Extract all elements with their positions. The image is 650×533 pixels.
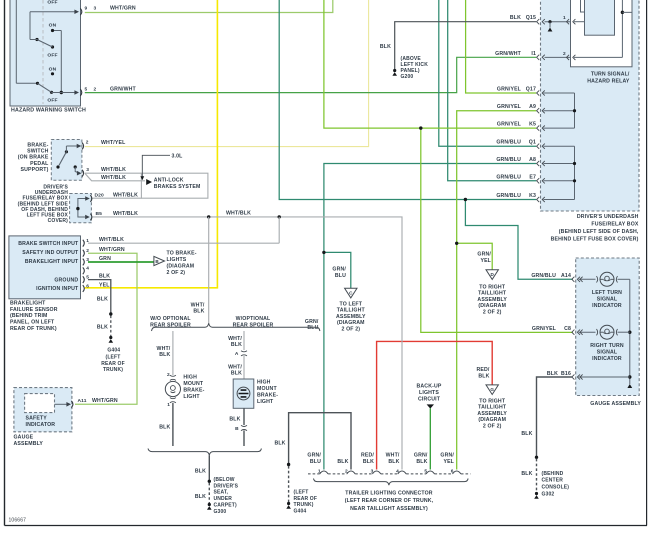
svg-text:GRN/: GRN/	[305, 319, 319, 325]
svg-text:(LEFT REAR CORNER OF TRUNK,: (LEFT REAR CORNER OF TRUNK,	[345, 498, 434, 504]
svg-text:COVER): COVER)	[48, 218, 69, 224]
svg-text:GRN/BLU: GRN/BLU	[496, 140, 521, 146]
svg-text:G300: G300	[214, 509, 227, 515]
svg-text:(BEHIND: (BEHIND	[542, 471, 564, 477]
svg-text:2: 2	[94, 86, 97, 92]
svg-text:GRN/BLU: GRN/BLU	[496, 157, 521, 163]
svg-text:TAILLIGHT: TAILLIGHT	[337, 308, 366, 314]
svg-text:GRN/BLU: GRN/BLU	[496, 174, 521, 180]
svg-text:LIGHT: LIGHT	[183, 394, 200, 400]
svg-text:ON: ON	[49, 23, 57, 29]
svg-text:TAILLIGHT: TAILLIGHT	[478, 405, 507, 411]
svg-text:GRN/BLU: GRN/BLU	[496, 193, 521, 199]
svg-text:BLK: BLK	[547, 371, 558, 377]
svg-text:1: 1	[563, 15, 566, 21]
svg-text:OFF: OFF	[47, 98, 57, 104]
svg-text:B5: B5	[96, 211, 103, 217]
svg-text:Q15: Q15	[526, 15, 536, 21]
svg-text:A11: A11	[78, 398, 87, 404]
svg-text:UNDER: UNDER	[214, 496, 233, 502]
svg-text:BLK: BLK	[416, 459, 427, 465]
svg-text:GAUGE: GAUGE	[14, 435, 34, 441]
svg-text:FAILURE SENSOR: FAILURE SENSOR	[10, 307, 58, 313]
svg-text:REAR SPOILER: REAR SPOILER	[233, 322, 274, 328]
svg-text:C: C	[349, 291, 353, 296]
svg-text:G404: G404	[107, 347, 120, 353]
svg-text:3: 3	[86, 167, 89, 173]
svg-text:2 OF 2): 2 OF 2)	[167, 270, 186, 276]
svg-text:GRN/: GRN/	[332, 266, 346, 272]
svg-text:TO RIGHT: TO RIGHT	[479, 398, 506, 404]
svg-text:C8: C8	[564, 326, 571, 332]
svg-text:(DIAGRAM: (DIAGRAM	[337, 320, 365, 326]
svg-text:LIGHTS: LIGHTS	[419, 390, 439, 396]
svg-text:2: 2	[563, 51, 566, 57]
svg-text:CONSOLE): CONSOLE)	[542, 485, 570, 491]
svg-text:TAILLIGHT: TAILLIGHT	[478, 291, 507, 297]
svg-text:PANEL, ON LEFT: PANEL, ON LEFT	[10, 320, 55, 326]
svg-text:E7: E7	[529, 174, 536, 180]
svg-text:REAR SPOILER: REAR SPOILER	[150, 322, 191, 328]
svg-text:WHT/BLK: WHT/BLK	[101, 167, 126, 173]
svg-text:WHT/: WHT/	[157, 346, 171, 352]
svg-text:GROUND: GROUND	[54, 277, 78, 283]
svg-text:CENTER: CENTER	[542, 478, 564, 484]
svg-text:BLU: BLU	[335, 273, 346, 279]
svg-text:D20: D20	[95, 193, 105, 199]
svg-text:BLK: BLK	[195, 494, 206, 500]
svg-text:G: G	[490, 387, 494, 392]
svg-text:G404: G404	[294, 509, 307, 515]
svg-text:PEDAL: PEDAL	[30, 161, 49, 167]
svg-text:LIGHT: LIGHT	[257, 399, 274, 405]
svg-text:K5: K5	[529, 122, 536, 128]
svg-text:9: 9	[85, 6, 88, 12]
svg-text:WHT/YEL: WHT/YEL	[101, 140, 126, 146]
svg-text:106667: 106667	[9, 518, 27, 524]
svg-text:ASSEMBLY: ASSEMBLY	[14, 441, 44, 447]
svg-text:BLK: BLK	[195, 468, 206, 474]
svg-text:BRAKE-: BRAKE-	[183, 388, 204, 394]
svg-text:BLK: BLK	[478, 373, 489, 379]
svg-text:SAFETY IND OUTPUT: SAFETY IND OUTPUT	[22, 250, 79, 256]
svg-text:BRAKE-: BRAKE-	[257, 393, 278, 399]
svg-text:BLU: BLU	[307, 325, 318, 331]
svg-text:BRAKES SYSTEM: BRAKES SYSTEM	[154, 184, 201, 190]
svg-text:K3: K3	[529, 193, 536, 199]
svg-text:I1: I1	[531, 51, 536, 57]
svg-text:YEL: YEL	[99, 282, 110, 288]
svg-text:B: B	[155, 259, 159, 264]
svg-text:SWITCH: SWITCH	[27, 148, 48, 154]
svg-text:GRN/: GRN/	[477, 251, 491, 257]
svg-text:TRUNK): TRUNK)	[294, 502, 314, 508]
svg-text:OFF: OFF	[47, 53, 57, 59]
svg-text:SIGNAL: SIGNAL	[597, 296, 618, 302]
svg-text:MOUNT: MOUNT	[257, 386, 277, 392]
svg-text:INDICATOR: INDICATOR	[26, 422, 56, 428]
svg-text:WHT/GRN: WHT/GRN	[110, 6, 136, 12]
svg-text:GRN/YEL: GRN/YEL	[497, 104, 522, 110]
svg-text:2: 2	[167, 372, 170, 378]
svg-text:WHT/: WHT/	[386, 453, 400, 459]
svg-text:2 OF 2): 2 OF 2)	[483, 310, 502, 316]
svg-text:HAZARD WARNING SWITCH: HAZARD WARNING SWITCH	[11, 108, 86, 114]
svg-text:BLK: BLK	[521, 431, 532, 437]
svg-text:WHT/BLK: WHT/BLK	[101, 175, 126, 181]
svg-text:BRAKELIGHT INPUT: BRAKELIGHT INPUT	[25, 259, 79, 265]
svg-text:BLK: BLK	[193, 308, 204, 314]
svg-text:NEAR TAILLIGHT ASSEMBLY): NEAR TAILLIGHT ASSEMBLY)	[350, 506, 428, 512]
svg-text:ASSEMBLY: ASSEMBLY	[477, 297, 507, 303]
svg-text:(DIAGRAM: (DIAGRAM	[167, 263, 195, 269]
svg-text:BLK: BLK	[510, 15, 521, 21]
svg-text:3: 3	[94, 6, 97, 12]
svg-text:BLK: BLK	[231, 342, 242, 348]
svg-text:BLK: BLK	[229, 417, 240, 423]
svg-text:BRAKE SWITCH INPUT: BRAKE SWITCH INPUT	[18, 241, 79, 247]
svg-text:OFF: OFF	[47, 0, 57, 6]
svg-text:D: D	[490, 272, 494, 277]
svg-text:(DIAGRAM: (DIAGRAM	[478, 417, 506, 423]
svg-text:SAFETY: SAFETY	[26, 415, 48, 421]
svg-text:BLU: BLU	[310, 459, 321, 465]
svg-text:BLK: BLK	[380, 44, 391, 50]
svg-text:3.0L: 3.0L	[172, 153, 184, 159]
svg-text:GRN/YEL: GRN/YEL	[532, 326, 557, 332]
svg-text:4: 4	[86, 266, 89, 272]
svg-text:HIGH: HIGH	[183, 375, 197, 381]
svg-text:BACK-UP: BACK-UP	[417, 384, 442, 390]
svg-text:YEL: YEL	[480, 258, 491, 264]
svg-text:A14: A14	[561, 273, 571, 279]
svg-text:GRN/: GRN/	[307, 453, 321, 459]
svg-text:ON: ON	[49, 66, 57, 72]
svg-text:CARPET): CARPET)	[214, 503, 237, 509]
svg-text:SIGNAL: SIGNAL	[597, 349, 618, 355]
svg-text:REAR OF TRUNK): REAR OF TRUNK)	[10, 326, 57, 332]
svg-text:(BELOW: (BELOW	[214, 477, 235, 483]
svg-text:GRN/: GRN/	[414, 453, 428, 459]
svg-text:RED/: RED/	[361, 453, 374, 459]
svg-text:6: 6	[86, 283, 89, 289]
svg-text:SEAT,: SEAT,	[214, 490, 229, 496]
svg-text:BLK: BLK	[388, 459, 399, 465]
svg-text:YEL: YEL	[443, 459, 454, 465]
svg-text:WHT/: WHT/	[228, 364, 242, 370]
svg-text:ASSEMBLY: ASSEMBLY	[336, 314, 366, 320]
svg-text:A: A	[235, 351, 239, 357]
svg-text:GRN/YEL: GRN/YEL	[497, 122, 522, 128]
svg-text:WHT/BLK: WHT/BLK	[113, 193, 138, 199]
svg-text:BLK: BLK	[97, 325, 108, 331]
svg-text:BLK: BLK	[159, 352, 170, 358]
svg-text:TRUNK): TRUNK)	[103, 367, 123, 373]
svg-text:REAR OF: REAR OF	[294, 496, 318, 502]
svg-text:MOUNT: MOUNT	[183, 381, 203, 387]
svg-text:G200: G200	[401, 74, 414, 80]
svg-text:W/OPTIONAL: W/OPTIONAL	[236, 316, 271, 322]
svg-text:B16: B16	[561, 371, 571, 377]
svg-text:GRN/YEL: GRN/YEL	[497, 87, 522, 93]
svg-text:RED/: RED/	[477, 367, 490, 373]
svg-text:IGNITION INPUT: IGNITION INPUT	[36, 286, 79, 292]
svg-text:1: 1	[167, 402, 170, 408]
svg-text:GRN/BLU: GRN/BLU	[531, 273, 556, 279]
svg-text:2: 2	[86, 140, 89, 146]
svg-text:FUSE/RELAY BOX: FUSE/RELAY BOX	[591, 222, 638, 228]
svg-text:WHT/BLK: WHT/BLK	[99, 237, 124, 243]
svg-text:INDICATOR: INDICATOR	[592, 303, 622, 309]
svg-text:HAZARD RELAY: HAZARD RELAY	[587, 78, 630, 84]
svg-text:(BEHIND TRIM: (BEHIND TRIM	[10, 313, 48, 319]
svg-text:A8: A8	[529, 157, 536, 163]
svg-text:TO LEFT: TO LEFT	[340, 301, 363, 307]
svg-text:WHT/GRN: WHT/GRN	[92, 398, 118, 404]
svg-text:2 OF 2): 2 OF 2)	[483, 424, 502, 430]
svg-text:INDICATOR: INDICATOR	[592, 356, 622, 362]
svg-text:B: B	[235, 426, 239, 432]
svg-text:A9: A9	[529, 104, 536, 110]
svg-text:GRN: GRN	[99, 256, 111, 262]
svg-text:SUPPORT): SUPPORT)	[20, 167, 48, 173]
svg-text:BLK: BLK	[521, 471, 532, 477]
svg-text:DRIVER'S: DRIVER'S	[214, 483, 239, 489]
svg-text:GRN/WHT: GRN/WHT	[110, 86, 137, 92]
svg-text:TO RIGHT: TO RIGHT	[479, 284, 506, 290]
svg-text:DRIVER'S UNDERDASH: DRIVER'S UNDERDASH	[577, 214, 639, 220]
svg-text:BLK: BLK	[274, 440, 285, 446]
svg-text:BEHIND LEFT FUSE BOX COVER): BEHIND LEFT FUSE BOX COVER)	[551, 237, 639, 243]
svg-text:HIGH: HIGH	[257, 380, 271, 386]
svg-text:LIGHTS: LIGHTS	[167, 257, 187, 263]
svg-text:BLK: BLK	[337, 459, 348, 465]
svg-text:WHT/BLK: WHT/BLK	[113, 211, 138, 217]
svg-text:REAR OF: REAR OF	[101, 361, 125, 367]
svg-text:BLK: BLK	[363, 459, 374, 465]
svg-text:BLK: BLK	[97, 297, 108, 303]
svg-text:ANTI-LOCK: ANTI-LOCK	[154, 177, 184, 183]
svg-text:(DIAGRAM: (DIAGRAM	[478, 303, 506, 309]
svg-text:Q1: Q1	[529, 140, 536, 146]
svg-text:(LEFT: (LEFT	[294, 489, 309, 495]
svg-text:(LEFT: (LEFT	[106, 354, 121, 360]
svg-text:ASSEMBLY: ASSEMBLY	[477, 411, 507, 417]
svg-text:BRAKELIGHT: BRAKELIGHT	[10, 300, 46, 306]
svg-text:LEFT TURN: LEFT TURN	[592, 290, 622, 296]
svg-text:G302: G302	[542, 492, 555, 498]
svg-text:TO BRAKE-: TO BRAKE-	[167, 251, 197, 257]
svg-text:WHT/: WHT/	[228, 336, 242, 342]
svg-text:(BEHIND LEFT SIDE OF DASH,: (BEHIND LEFT SIDE OF DASH,	[559, 229, 639, 235]
svg-text:BLK: BLK	[99, 273, 110, 279]
svg-text:TRAILER LIGHTING CONNECTOR: TRAILER LIGHTING CONNECTOR	[345, 490, 432, 496]
svg-text:GAUGE ASSEMBLY: GAUGE ASSEMBLY	[590, 401, 641, 407]
svg-text:(ON BRAKE: (ON BRAKE	[18, 155, 49, 161]
svg-text:2 OF 2): 2 OF 2)	[341, 327, 360, 333]
svg-text:WHT/GRN: WHT/GRN	[99, 247, 125, 253]
svg-text:1: 1	[86, 238, 89, 244]
svg-text:BRAKE-: BRAKE-	[27, 142, 48, 148]
svg-text:GRN/: GRN/	[440, 453, 454, 459]
svg-text:W/O OPTIONAL: W/O OPTIONAL	[150, 316, 191, 322]
svg-text:GRN/WHT: GRN/WHT	[495, 51, 522, 57]
svg-text:RIGHT TURN: RIGHT TURN	[590, 343, 624, 349]
svg-text:5: 5	[85, 86, 88, 92]
svg-text:WHT/BLK: WHT/BLK	[226, 210, 251, 216]
svg-text:TURN SIGNAL/: TURN SIGNAL/	[591, 71, 630, 77]
svg-text:Q17: Q17	[526, 87, 536, 93]
svg-text:CIRCUIT: CIRCUIT	[418, 397, 441, 403]
svg-text:BLK: BLK	[231, 371, 242, 377]
svg-text:BLK: BLK	[159, 425, 170, 431]
